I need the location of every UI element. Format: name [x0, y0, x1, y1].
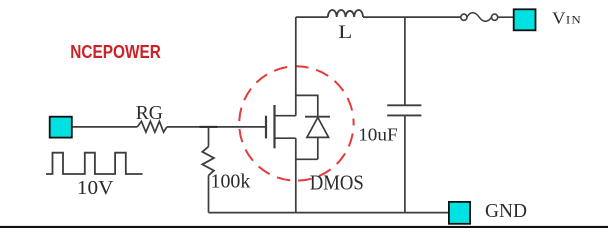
ground rail wire [209, 212, 449, 214]
wire input to RG [73, 126, 138, 128]
wire diode anode down [317, 137, 319, 159]
body diode cathode bar [305, 116, 330, 118]
MOSFET drain stub [275, 115, 296, 117]
wire 100k to ground rail [208, 176, 210, 213]
wire capacitor top branch [404, 17, 406, 105]
switch contact circle left [461, 14, 467, 20]
body diode triangle [307, 117, 329, 137]
svg-text:GND: GND [485, 200, 527, 222]
MOSFET gate bar [265, 116, 267, 139]
switch wavy blade [467, 13, 492, 21]
inductor L [328, 10, 363, 17]
wire source vertical [295, 138, 297, 212]
MOSFET source stub [275, 137, 296, 139]
GND terminal square [449, 202, 470, 224]
VIN terminal square [514, 9, 536, 30]
square wave symbol [46, 153, 143, 174]
wire capacitor bottom to ground rail [404, 116, 406, 213]
red dashed circle (DMOS highlight) [239, 66, 353, 180]
node junction at 100k [200, 126, 218, 128]
capacitor C 10uF top plate [387, 104, 421, 106]
svg-text:100k: 100k [211, 171, 251, 193]
switch contact circle right [492, 14, 498, 20]
svg-text:RG: RG [136, 103, 163, 124]
wire inductor to switch [363, 16, 461, 18]
wire top rail left [296, 16, 328, 18]
resistor 100k [202, 147, 214, 176]
svg-text:NCEPOWER: NCEPOWER [70, 42, 161, 62]
svg-text:10uF: 10uF [358, 125, 397, 146]
wire drain vertical [295, 17, 297, 116]
svg-text:DMOS: DMOS [310, 171, 364, 195]
input terminal square [50, 117, 72, 138]
bottom border bar [0, 226, 608, 228]
svg-text:L: L [338, 21, 352, 43]
MOSFET channel bar [273, 105, 275, 148]
wire drain to diode branch [296, 95, 318, 116]
wire node down to 100k [208, 127, 210, 147]
capacitor C 10uF bottom plate [387, 114, 421, 116]
wire switch to VIN terminal [498, 16, 514, 18]
resistor RG [137, 121, 167, 132]
wire RG to gate node [167, 126, 265, 128]
svg-text:10V: 10V [77, 178, 114, 199]
wire diode anode to source [296, 158, 318, 160]
